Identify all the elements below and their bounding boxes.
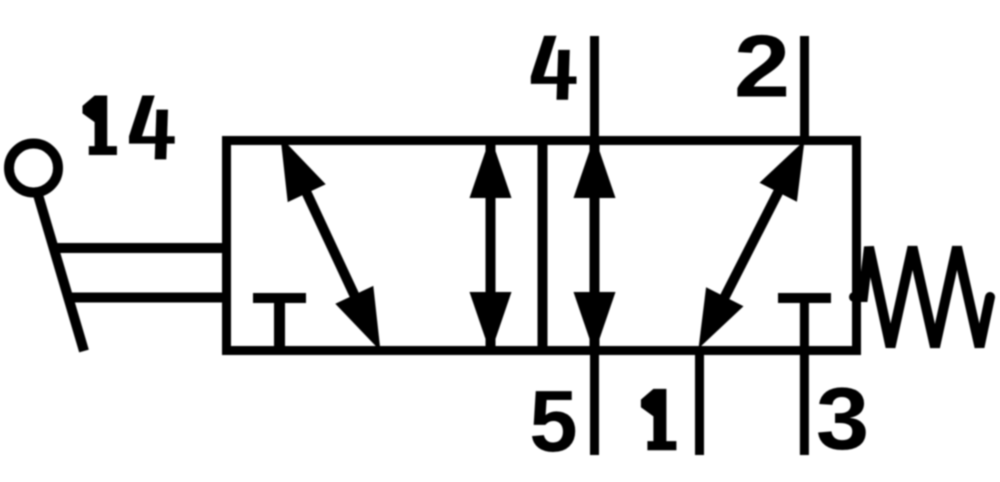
port 5 line [590,346,599,455]
svg-text:3: 3 [816,370,869,468]
svg-text:5: 5 [529,373,577,470]
port label 4 [531,36,577,100]
port 2 line [800,36,809,145]
left cell diagonal double arrow (flow path) [281,137,381,351]
hand lever knob (circle) [9,144,58,193]
left cell vertical double arrow (flow path) [470,137,512,354]
port label 14 [82,96,174,160]
left cell blocked port T symbol [253,298,306,350]
position divider [538,141,548,351]
lever lower link to valve body [65,293,231,303]
right cell blocked port T symbol (port 3 seat) [778,293,831,303]
port 1 line [695,346,704,455]
hand lever arm [36,188,84,351]
port 4 line [590,36,599,145]
valve body outline (two-position box) [227,141,857,351]
right cell vertical double arrow (flow path 4-ward) [574,137,616,354]
port label 1 [641,389,677,450]
return spring [854,247,990,347]
lever upper link to valve body [50,243,231,253]
right cell diagonal double arrow (flow path 1 to 2) [699,141,805,349]
port 3 line [800,298,809,455]
svg-text:2: 2 [734,17,790,115]
